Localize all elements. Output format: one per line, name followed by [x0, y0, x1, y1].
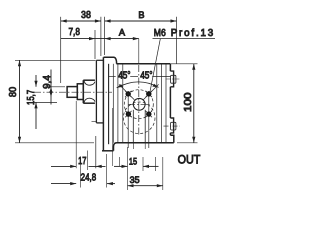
bell housing [83, 80, 95, 103]
bolt circle (dashed) [124, 90, 153, 119]
internal section lines [113, 64, 166, 143]
side-view centerline [34, 91, 112, 93]
svg-text:100: 100 [183, 92, 194, 112]
svg-text:9,4: 9,4 [42, 75, 53, 89]
svg-text:38: 38 [81, 10, 91, 21]
svg-text:24,8: 24,8 [81, 172, 97, 183]
front-view horizontal crosshair [128, 103, 150, 105]
svg-text:Prof.13: Prof.13 [171, 28, 214, 39]
body right edge [169, 64, 171, 71]
body horizontal joint line [109, 76, 171, 78]
svg-text:15: 15 [129, 156, 137, 166]
bolt hole extension lines [128, 91, 149, 148]
dimension 15,7 (vertical) [31, 75, 57, 129]
dimension 80 (left, vertical) [15, 60, 96, 143]
shaft circle (front view) [133, 98, 145, 110]
svg-text:OUT: OUT [178, 152, 201, 166]
extension lines below body (left) [88, 108, 113, 188]
dimension 15 [114, 157, 159, 171]
dimension 7,8 and A (shared line) [61, 30, 139, 59]
upper port [166, 71, 180, 87]
svg-text:M6: M6 [154, 28, 166, 39]
lower port (OUT) [164, 118, 180, 133]
rear foot step [170, 135, 173, 143]
mounting flange plate (side) [92, 57, 114, 151]
body bottom edge [114, 143, 174, 151]
bolt holes with X marks [126, 91, 152, 117]
front-view vertical centerline [138, 39, 140, 64]
gear chamber below shaft [133, 110, 145, 149]
svg-text:45°: 45° [118, 70, 130, 81]
dimension 35 [128, 147, 163, 190]
svg-text:7,8: 7,8 [68, 27, 80, 38]
label M6 Prof.13 with leader [150, 39, 215, 94]
svg-text:17: 17 [78, 156, 87, 167]
shaft collar [77, 84, 83, 100]
dimension 17 [51, 101, 106, 168]
shaft [67, 87, 77, 98]
body left edge [108, 64, 110, 144]
dimension B [105, 17, 177, 64]
svg-text:35: 35 [130, 175, 140, 186]
driven gear circle (dashed) [123, 102, 155, 134]
angular dimension arc with arrows [117, 82, 159, 88]
body top edge [116, 63, 170, 65]
svg-text:80: 80 [8, 87, 19, 98]
svg-text:B: B [138, 10, 144, 20]
dimension 9,4 (vertical) [45, 70, 65, 105]
dimension 100 (right, vertical) [171, 64, 198, 143]
45-degree radial lines [119, 84, 159, 99]
svg-text:A: A [119, 27, 126, 37]
dimension 24,8 [51, 164, 115, 188]
svg-text:45°: 45° [140, 70, 152, 81]
dimension 38 [61, 17, 101, 83]
top hump (front cover boss) [104, 57, 117, 64]
